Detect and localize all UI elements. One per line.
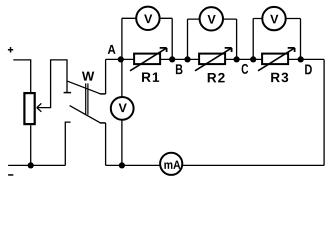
voltmeter V0 glyph [119,104,127,113]
switch W upper-left contact bar [64,92,72,94]
junction dot V1 right lead [169,56,175,62]
node A junction dot [118,56,124,62]
wire voltmeter V2 top leads [188,18,237,20]
node C label [242,64,249,74]
resistor R1 body [134,54,160,65]
switch W upper blade [68,81,101,94]
junction dot V2 right lead node C [234,56,240,62]
resistor R3 body [262,54,288,65]
junction dot at rheostat bottom [28,162,34,168]
voltmeter V2 circle [200,7,223,30]
bottom wire through milliammeter [106,164,325,166]
wire column node A with voltmeter V1 and left voltmeter leads [121,18,123,165]
junction dot V3 right lead node D [298,56,304,62]
resistor R2 body [199,54,225,65]
switch W mechanical link double line [86,83,88,114]
node D label [305,65,312,75]
voltmeter V3 glyph [270,15,278,24]
wire voltmeter V3 top leads [253,18,300,20]
milliammeter mA circle [160,153,182,175]
switch W upper-right contact foot [100,93,106,95]
resistor R3 label [271,73,288,83]
wiper arrowhead [37,103,42,111]
resistor R3 variability arrow [258,48,294,71]
switch W lower-right contact foot [100,122,106,124]
right rail wire [323,59,325,165]
wire voltmeter V2 left lead [187,19,189,59]
battery plus terminal label [8,47,13,52]
resistor R1 label [142,73,159,82]
switch W upper-right post [105,59,107,94]
wire voltmeter V3 right lead [300,19,302,60]
wire bottom left from minus terminal to switch lower-left post [8,164,65,166]
resistor R2 label [208,73,225,82]
switch W label [82,72,94,81]
resistor R1 variability arrow [130,48,166,71]
voltmeter V0 circle left branch [111,97,134,120]
node A label [108,45,116,54]
battery minus terminal label [8,174,13,176]
wire rheostat wiper to switch upper-left post [37,60,67,108]
wire voltmeter V1 right lead [171,18,173,59]
switch W lower-right post [105,123,107,165]
junction dot left voltmeter bottom lead [119,162,125,168]
wire voltmeter V1 top leads [122,17,172,19]
top wire from switch through nodes A B C D [106,58,325,60]
rheostat potentiometer body [24,93,34,124]
voltmeter V3 circle [262,7,285,30]
milliammeter mA glyph [164,161,180,169]
switch W lower-left post [65,122,70,165]
resistor R2 variability arrow [195,48,231,71]
node B label [176,64,183,74]
wire voltmeter V3 left lead [252,19,254,60]
junction dot V3 left lead [250,56,256,62]
wire from + terminal down to rheostat [13,60,30,92]
junction dot V2 left lead node B [184,56,190,62]
switch W lower blade [70,106,100,123]
voltmeter V2 glyph [208,15,216,24]
voltmeter V1 glyph [144,15,152,24]
voltmeter V1 circle [136,7,159,30]
wire voltmeter V2 right lead [236,19,238,59]
wire rheostat bottom lead [30,125,32,165]
